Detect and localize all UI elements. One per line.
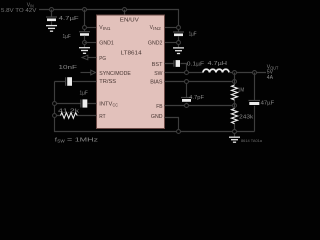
capacitor C8 47uF: [249, 100, 275, 106]
svg-text:1µF: 1µF: [189, 32, 197, 38]
svg-text:CC: CC: [113, 103, 118, 108]
svg-text:41.2k: 41.2k: [58, 108, 79, 114]
junction SW/BST: [185, 71, 189, 75]
capacitor C3 1uF (VIN2): [173, 32, 197, 41]
svg-text:1M: 1M: [238, 88, 245, 94]
capacitor C5 1uF (INTVCC): [80, 90, 89, 107]
svg-text:GND2: GND2: [148, 41, 163, 47]
svg-text:GND: GND: [151, 114, 163, 120]
wire BIAS pin: [165, 81, 235, 83]
junction on VIN rail at C1: [50, 8, 54, 12]
wire divider column: [234, 73, 236, 132]
junction VIN2: [177, 26, 181, 30]
svg-text:TR/SS: TR/SS: [99, 79, 116, 85]
svg-text:4.7pF: 4.7pF: [189, 95, 204, 101]
wire BST pin: [165, 64, 187, 73]
junction GND1: [83, 41, 87, 45]
wire VOUT: [229, 72, 266, 74]
note fSW = 1MHz: [55, 138, 99, 144]
svg-text:IN2: IN2: [153, 26, 161, 31]
svg-text:SW: SW: [57, 139, 65, 144]
arrow PG output: [82, 55, 88, 60]
svg-text:4A: 4A: [267, 75, 274, 81]
svg-text:5.8V TO 42V: 5.8V TO 42V: [1, 8, 37, 14]
wire stub to ground: [178, 45, 180, 48]
junction GND on bottom rail: [177, 130, 181, 134]
junction RT on left rail: [53, 114, 57, 118]
svg-text:SYNC/MODE: SYNC/MODE: [99, 71, 131, 77]
svg-text:RT: RT: [99, 114, 106, 120]
svg-text:IN1: IN1: [103, 26, 111, 31]
svg-text:4.7µF: 4.7µF: [59, 16, 80, 22]
wire GND2 pin: [165, 42, 177, 44]
node VOUT label: [267, 65, 279, 81]
junction INTVCC on left rail: [53, 102, 57, 106]
wire VIN2 pin: [165, 27, 179, 29]
wire 4.7pF branch: [186, 84, 188, 104]
ground below C2: [79, 48, 90, 54]
capacitor C7 4.7pF: [181, 95, 205, 102]
svg-text:FB: FB: [156, 104, 163, 110]
capacitor C1 4.7uF: [46, 16, 80, 25]
svg-text:EN/UV: EN/UV: [120, 18, 139, 24]
junction VOUT output cap: [253, 71, 257, 75]
wire C1 branch: [51, 10, 53, 18]
wire RT pin: [55, 115, 97, 117]
junction VOUT divider: [233, 71, 237, 75]
junction FB / divider: [233, 104, 237, 108]
wire VIN2 branch down: [178, 30, 180, 32]
wire SW pin: [165, 72, 204, 74]
svg-text:PG: PG: [99, 56, 106, 62]
wire VIN1 branch: [84, 10, 86, 32]
ground below C1: [46, 26, 57, 32]
inductor L1 4.7uH: [203, 61, 229, 72]
svg-text:10nF: 10nF: [59, 65, 78, 71]
junction BIAS / 4.7pF: [185, 80, 189, 84]
resistor R1 41.2k: [58, 108, 79, 118]
wire stub to ground: [234, 134, 236, 137]
arrow SYNC/MODE input: [81, 72, 91, 74]
wire stub to ground: [84, 45, 86, 48]
wire left ground rail and bottom rail: [55, 82, 255, 132]
wire INTVCC pin: [55, 103, 97, 105]
wire 47uF branch: [254, 73, 256, 132]
svg-text:INTV: INTV: [99, 102, 112, 108]
svg-text:47µF: 47µF: [261, 100, 275, 106]
svg-text:LT8614: LT8614: [121, 51, 142, 57]
junction BIAS / divider: [233, 80, 237, 84]
svg-text:4.7µH: 4.7µH: [208, 61, 228, 67]
junction on VIN rail at VIN1 column: [83, 8, 87, 12]
capacitor C2 1uF (VIN1): [63, 32, 91, 41]
junction FB / 4.7pF: [185, 104, 189, 108]
wire GND pin to bottom rail: [165, 118, 179, 132]
svg-text:0.1µF: 0.1µF: [187, 61, 205, 67]
svg-text:1µF: 1µF: [80, 90, 89, 96]
junction GND2: [177, 41, 181, 45]
svg-text:8614 TA01a: 8614 TA01a: [241, 139, 262, 143]
wire FB pin: [165, 105, 235, 107]
op-amp U1 LT8614 body: [97, 15, 165, 129]
wire EN/UV pin: [124, 10, 126, 16]
svg-text:243k: 243k: [239, 114, 253, 120]
svg-text:GND1: GND1: [99, 41, 114, 47]
ground below C3: [173, 48, 184, 54]
wire VIN rail: [39, 10, 179, 28]
svg-text:BST: BST: [152, 62, 163, 68]
capacitor C4 10nF (TR/SS): [59, 65, 78, 86]
wire PG pin: [88, 57, 97, 59]
wire TR/SS pin: [55, 81, 97, 83]
capacitor C6 0.1uF (BST): [174, 60, 205, 67]
wire VIN1 pin: [85, 27, 97, 29]
svg-text:1µF: 1µF: [63, 34, 72, 40]
junction divider ground: [233, 130, 237, 134]
junction VIN1: [83, 26, 87, 30]
resistor R2 1M: [232, 85, 245, 100]
svg-text:SW: SW: [154, 71, 163, 77]
wire GND1 pin: [85, 42, 97, 44]
resistor R3 243k: [232, 109, 254, 124]
svg-text:BIAS: BIAS: [150, 79, 163, 85]
ground main: [229, 137, 240, 142]
junction on VIN rail at EN/UV: [123, 8, 127, 12]
svg-text:= 1MHz: = 1MHz: [67, 138, 98, 144]
node VIN label: [1, 2, 37, 14]
